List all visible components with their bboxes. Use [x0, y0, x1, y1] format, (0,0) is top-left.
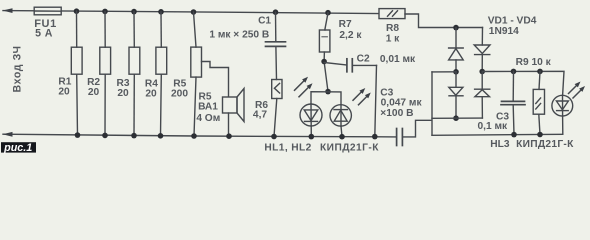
wire top rail with input arrow	[3, 8, 380, 13]
node bottom speaker	[226, 133, 232, 139]
svg-text:1 мк × 250 В: 1 мк × 250 В	[209, 30, 269, 41]
svg-text:2,2 к: 2,2 к	[339, 30, 362, 41]
resistor R4	[156, 12, 167, 136]
svg-text:КИПД21Г-К: КИПД21Г-К	[516, 139, 574, 150]
LED HL3	[552, 82, 585, 135]
resistor R8	[379, 9, 405, 19]
svg-text:ВА1: ВА1	[198, 102, 218, 113]
diode VD4	[475, 72, 490, 119]
label FU1	[34, 18, 57, 40]
label R1 20	[58, 76, 71, 97]
resistor R1	[71, 11, 82, 135]
node C3b top	[511, 69, 517, 75]
resistor R7	[319, 13, 330, 92]
node top R4	[158, 9, 164, 15]
label HL1, HL2 КИПД21Г-К	[264, 142, 379, 153]
svg-text:VD1 - VD4: VD1 - VD4	[488, 15, 537, 26]
label C2 0,01 мк	[357, 53, 416, 65]
svg-text:5 А: 5 А	[35, 27, 53, 39]
wire step from C3	[403, 120, 432, 137]
diode VD2	[474, 28, 490, 72]
resistor R5	[191, 12, 202, 136]
capacitor C3 0,047 series	[397, 129, 403, 146]
node top R1	[74, 8, 80, 14]
resistor R9	[533, 71, 544, 134]
diode VD3	[449, 72, 463, 118]
svg-text:КИПД21Г-К: КИПД21Г-К	[320, 143, 379, 154]
node bottom C2	[372, 134, 378, 140]
wire bottom rail right section	[432, 134, 563, 135]
svg-text:HL1, HL2: HL1, HL2	[264, 142, 311, 153]
node bridge mid-right	[479, 69, 485, 75]
node R9 top	[537, 69, 543, 75]
svg-text:0,01 мк: 0,01 мк	[380, 54, 416, 65]
label C3 0,1 мк	[478, 111, 510, 131]
label R2 20	[87, 77, 100, 98]
svg-text:×100 В: ×100 В	[380, 108, 413, 119]
node top R3	[131, 9, 137, 15]
node top R5	[191, 9, 197, 15]
label R8 1 к	[386, 23, 400, 44]
resistor R2	[100, 11, 111, 135]
svg-text:R7: R7	[339, 19, 352, 30]
node bottom C3b	[511, 132, 517, 138]
label R5 200	[171, 79, 188, 100]
wire bridge bottom	[432, 117, 482, 119]
wire bypass mid-left	[432, 72, 456, 136]
label рис.1	[1, 142, 36, 154]
node bottom R9	[537, 132, 543, 138]
node LED branch	[325, 89, 331, 95]
speaker BA1	[223, 89, 245, 137]
svg-text:4 Ом: 4 Ом	[196, 113, 220, 124]
node bottom R5	[191, 133, 197, 139]
wire C2 to bottom rail	[375, 65, 377, 136]
wire LED branch	[311, 92, 341, 105]
svg-text:20: 20	[117, 88, 129, 99]
node top R7	[325, 10, 331, 16]
svg-text:20: 20	[88, 87, 100, 98]
svg-text:1 к: 1 к	[386, 33, 400, 44]
diode VD1	[449, 28, 464, 72]
node bridge mid-left	[453, 69, 459, 75]
LED HL1	[295, 77, 323, 137]
node bottom HL1	[309, 134, 315, 140]
wire R5 tap to speaker	[202, 62, 229, 98]
svg-text:0,1 мк: 0,1 мк	[478, 121, 509, 132]
label R4 20	[145, 79, 158, 100]
node bottom R1	[75, 132, 81, 138]
node bridge bottom	[453, 115, 459, 121]
label VD1 - VD4 1N914	[488, 15, 537, 37]
fuse FU1	[34, 7, 61, 15]
svg-text:20: 20	[58, 86, 70, 97]
label R5 BA1 4 Ом	[196, 92, 220, 124]
node bottom HL2	[339, 134, 345, 140]
svg-text:200: 200	[171, 89, 188, 100]
label R6 4,7	[253, 100, 268, 121]
svg-text:HL3: HL3	[490, 139, 510, 150]
label R3 20	[116, 78, 129, 99]
svg-text:C2: C2	[357, 53, 370, 64]
svg-text:C1: C1	[258, 16, 271, 27]
capacitor C2	[324, 59, 376, 72]
node bottom R4	[158, 133, 164, 139]
svg-text:20: 20	[145, 89, 157, 100]
svg-text:4,7: 4,7	[253, 109, 267, 120]
svg-text:рис.1: рис.1	[3, 142, 32, 154]
wire bottom rail with arrow	[3, 132, 397, 137]
label R7 2,2 к	[339, 19, 363, 41]
node bottom R3	[131, 133, 137, 139]
svg-text:Вход ЗЧ: Вход ЗЧ	[12, 45, 24, 92]
capacitor C1	[266, 12, 286, 79]
label C1 1 мк х 250 В	[209, 16, 271, 41]
label C3 0,047 мк х100 В	[380, 87, 422, 119]
resistor R3	[129, 12, 140, 136]
capacitor C3 0,1	[501, 71, 525, 134]
LED HL2	[330, 88, 371, 137]
label HL3 КИПД21Г-К	[490, 139, 574, 150]
wire bridge mid-right to HL3	[482, 71, 564, 95]
node bottom R6	[271, 134, 277, 140]
wire R8 to bridge top	[405, 14, 483, 28]
svg-text:1N914: 1N914	[489, 26, 519, 37]
node top C1	[273, 9, 279, 15]
node R7 C2	[321, 59, 327, 65]
node bridge top	[453, 25, 459, 31]
node top R2	[102, 9, 108, 15]
node bottom R2	[102, 133, 108, 139]
svg-text:R9 10 к: R9 10 к	[516, 57, 552, 68]
resistor R6	[272, 80, 282, 137]
